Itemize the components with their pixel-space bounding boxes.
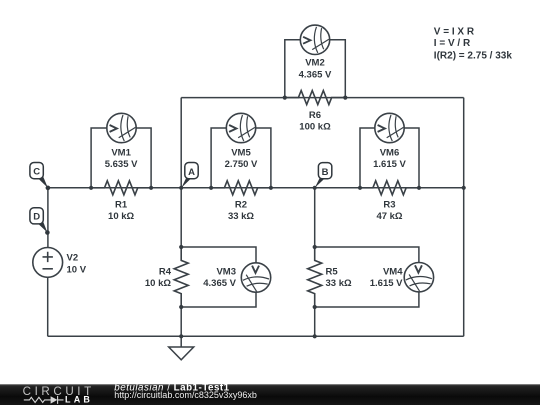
wire: VM1 left lead loop (91, 128, 107, 188)
resistor R5 (308, 247, 322, 307)
wire: R4 bottom to bottom rail (180, 307, 182, 336)
wire: VM4 top lead loop from R5 top (315, 247, 419, 262)
wire: VM3 top lead loop from R4 top (181, 247, 256, 263)
junction R5 branch on bottom rail (313, 334, 317, 338)
svg-text:R4: R4 (159, 266, 172, 277)
svg-text:33 kΩ: 33 kΩ (326, 278, 352, 289)
wire: VM5 right lead loop (256, 128, 271, 188)
junction VM1 right (149, 186, 153, 190)
node A flag (181, 163, 198, 188)
ground (169, 336, 194, 360)
svg-text:R6: R6 (309, 110, 321, 121)
voltage source V2 (33, 248, 63, 278)
svg-text:D: D (33, 212, 40, 223)
wire: VM2 right lead loop (330, 40, 346, 98)
wire: VM6 left lead loop (360, 128, 375, 188)
footer bar (0, 384, 540, 405)
svg-text:1.615 V: 1.615 V (370, 278, 403, 289)
footer logo resistor-diode squiggle (24, 396, 64, 404)
wire: VM6 right lead loop (404, 128, 419, 188)
svg-text:R2: R2 (235, 200, 247, 211)
wire: main rail node C to node B to right vertical (48, 187, 464, 189)
junction main rail right (462, 186, 466, 190)
wire: VM5 left lead loop (211, 128, 226, 188)
svg-text:VM1: VM1 (111, 148, 131, 159)
svg-text:V2: V2 (67, 253, 79, 264)
wire: R5 bottom to bottom rail (314, 307, 316, 336)
resistor R2 (211, 181, 271, 195)
resistor R1 (91, 181, 151, 195)
junction ground on bottom rail (179, 334, 183, 338)
resistor R6 (285, 91, 345, 105)
junction R5 top (313, 245, 317, 249)
junction VM2 left on top rail (283, 96, 287, 100)
resistor R4 (174, 247, 188, 307)
voltmeter VM2 (300, 25, 329, 54)
svg-text:I = V / R: I = V / R (434, 38, 471, 49)
voltmeter VM5 (226, 113, 255, 142)
svg-text:R1: R1 (115, 200, 128, 211)
junction VM5 left (209, 186, 213, 190)
svg-text:5.635 V: 5.635 V (105, 159, 138, 170)
wire: VM3 bottom lead loop to R4 bottom (181, 292, 256, 307)
node B flag (315, 163, 332, 188)
junction VM6 left (358, 186, 362, 190)
junction VM1 left (89, 186, 93, 190)
footer CircuitLab logo wordmark (23, 385, 95, 405)
voltmeter VM3 (241, 263, 270, 292)
wire: VM4 bottom lead loop to R5 bottom (315, 292, 419, 307)
svg-text:C: C (33, 166, 40, 177)
junction VM5 right (269, 186, 273, 190)
voltmeter VM1 (107, 113, 136, 142)
wire: VM1 right lead loop (136, 128, 151, 188)
junction R4 bottom (179, 305, 183, 309)
junction VM6 right (417, 186, 421, 190)
wire: top rail from node A up across R6 to right vertical (181, 97, 464, 99)
junction R5 bottom (313, 305, 317, 309)
svg-text:VM5: VM5 (231, 148, 251, 159)
wire: node A vertical up to top rail (180, 98, 182, 188)
svg-text:2.750 V: 2.750 V (225, 159, 258, 170)
junction node B (313, 186, 317, 190)
svg-text:LAB: LAB (65, 395, 93, 405)
svg-text:4.365 V: 4.365 V (299, 69, 332, 80)
junction R4 top (179, 245, 183, 249)
svg-text:VM3: VM3 (216, 266, 236, 277)
voltmeter VM6 (375, 113, 404, 142)
junction node C on main rail (46, 186, 50, 190)
voltmeter VM4 (404, 263, 433, 292)
svg-text:R3: R3 (383, 200, 395, 211)
svg-text:10 kΩ: 10 kΩ (108, 211, 134, 222)
svg-text:http://circuitlab.com/c8325v3x: http://circuitlab.com/c8325v3xy96xb (114, 390, 257, 400)
svg-text:10 V: 10 V (67, 265, 87, 276)
wire: VM2 left lead loop (285, 40, 301, 98)
svg-text:1.615 V: 1.615 V (373, 159, 406, 170)
svg-text:10 kΩ: 10 kΩ (145, 278, 171, 289)
svg-text:100 kΩ: 100 kΩ (299, 121, 331, 132)
svg-text:B: B (322, 167, 329, 178)
wire: node A vertical down to R4 top (180, 188, 182, 247)
wire: left vertical from V2 bottom to bottom rail (47, 277, 49, 336)
svg-text:V = I X R: V = I X R (434, 27, 475, 38)
svg-text:VM6: VM6 (380, 148, 400, 159)
svg-text:33 kΩ: 33 kΩ (228, 211, 254, 222)
wire: bottom ground rail (48, 335, 464, 337)
svg-text:I(R2) = 2.75 / 33k: I(R2) = 2.75 / 33k (434, 50, 513, 61)
wire: node B vertical down to R5 top (314, 188, 316, 247)
junction node A (179, 186, 183, 190)
svg-text:VM4: VM4 (383, 266, 403, 277)
junction VM2 right on top rail (343, 96, 347, 100)
wire: right vertical joining top rail, main rail and bottom rail (463, 98, 465, 337)
svg-text:4.365 V: 4.365 V (203, 278, 236, 289)
wire: left vertical from node C down to V2 top (47, 188, 49, 248)
node D flag (30, 208, 50, 235)
svg-text:A: A (188, 167, 195, 178)
svg-text:R5: R5 (326, 266, 339, 277)
resistor R3 (360, 181, 420, 195)
node C flag (30, 163, 50, 191)
svg-text:47 kΩ: 47 kΩ (376, 211, 402, 222)
svg-text:VM2: VM2 (305, 58, 325, 69)
